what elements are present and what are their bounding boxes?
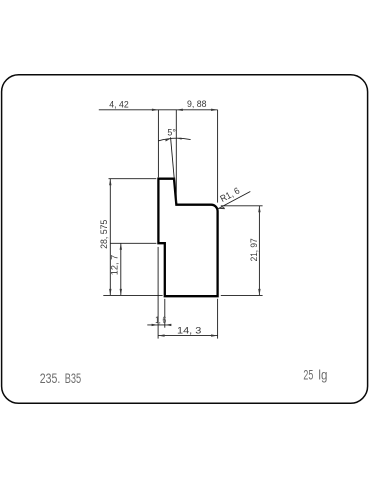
svg-text:28, 575: 28, 575 [98, 220, 109, 249]
svg-text:21, 97: 21, 97 [248, 238, 259, 261]
svg-text:25: 25 [303, 368, 313, 384]
angle dimension 5 degrees [158, 137, 190, 179]
dimension 9,88 [176, 110, 217, 203]
svg-text:5°: 5° [167, 127, 176, 138]
dimension 1,6 [147, 247, 171, 339]
svg-text:9, 88: 9, 88 [187, 98, 207, 109]
dimension 12,7 [111, 243, 157, 295]
dimension 4,42 [99, 110, 218, 178]
drawing sheet frame [2, 75, 368, 404]
svg-text:14, 3: 14, 3 [177, 324, 201, 335]
radius leader R1,6 [218, 192, 251, 209]
dimension 14,3 [158, 299, 218, 339]
dimension 21,97 [221, 206, 263, 296]
svg-text:12, 7: 12, 7 [108, 255, 119, 275]
dimension 28,575 [103, 179, 162, 296]
svg-text:4, 42: 4, 42 [109, 99, 128, 110]
svg-text:1, 6: 1, 6 [155, 314, 166, 325]
profile outline [158, 179, 217, 297]
svg-text:B35: B35 [65, 371, 81, 387]
svg-text:lg: lg [318, 368, 327, 384]
svg-text:235.: 235. [40, 371, 61, 387]
